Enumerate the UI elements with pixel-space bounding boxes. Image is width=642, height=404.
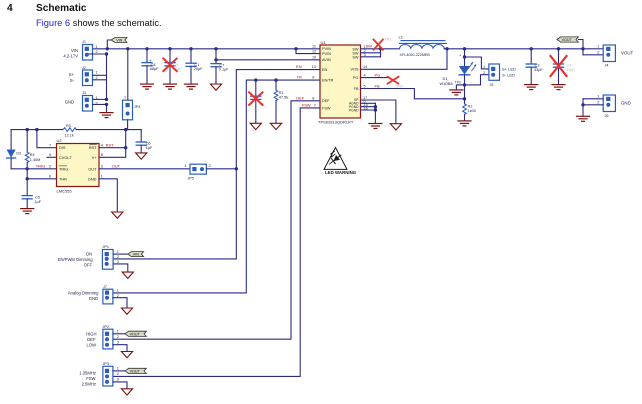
- wire JP1 pin3 to gnd: [113, 264, 128, 272]
- wire TRIG net: [11, 168, 56, 170]
- svg-text:TPS62813QDRLRT: TPS62813QDRLRT: [318, 119, 354, 124]
- wire EN/TR net (riser B): [113, 80, 320, 293]
- capacitor C7 + AVIN tap: [211, 47, 229, 83]
- svg-text:3: 3: [117, 340, 119, 344]
- svg-text:5: 5: [49, 153, 51, 157]
- svg-text:2: 2: [49, 165, 51, 169]
- svg-text:JP2: JP2: [103, 325, 110, 329]
- svg-text:LMC555: LMC555: [57, 188, 73, 193]
- svg-text:D2: D2: [16, 152, 21, 156]
- svg-text:PG: PG: [353, 76, 359, 80]
- ground (JP2, power): [121, 352, 132, 358]
- wire JP5 to EN riser: [206, 168, 236, 170]
- wire VOS sense: [361, 49, 448, 70]
- svg-text:FSW: FSW: [302, 103, 311, 108]
- net label VOUT (JP3): [125, 368, 146, 373]
- ground (R1, power): [270, 123, 281, 129]
- wire J7 pin2 to gnd: [113, 298, 127, 308]
- wire JP1 pin1 to VIN flag: [113, 253, 128, 255]
- wire R3 right to V+ node: [76, 129, 141, 131]
- node cathode/J5: [463, 83, 466, 86]
- svg-text:1: 1: [483, 65, 485, 69]
- svg-text:1: 1: [96, 70, 98, 74]
- svg-text:ON: ON: [86, 252, 92, 257]
- svg-text:U2: U2: [57, 138, 63, 143]
- svg-text:1: 1: [185, 164, 187, 168]
- svg-text:V+: V+: [92, 155, 98, 160]
- ground (C4): [552, 85, 565, 90]
- svg-text:4: 4: [364, 73, 366, 77]
- svg-text:7: 7: [49, 144, 51, 148]
- ground (C8): [141, 84, 154, 89]
- svg-text:2: 2: [597, 101, 599, 105]
- svg-text:14: 14: [363, 65, 367, 69]
- node RST/V+: [124, 146, 127, 149]
- svg-text:20µF: 20µF: [194, 67, 203, 71]
- node FB/R2: [463, 97, 466, 100]
- svg-text:2: 2: [597, 51, 599, 55]
- svg-text:1: 1: [117, 367, 119, 371]
- wire FB net: [361, 89, 465, 99]
- svg-text:13: 13: [312, 65, 316, 69]
- svg-text:DNP: DNP: [396, 84, 404, 88]
- ground (C2, power): [250, 123, 261, 129]
- wire VOUT flag stub: [578, 40, 583, 55]
- wire AGND/PGND cluster: [361, 103, 376, 123]
- svg-text:FB: FB: [375, 83, 380, 88]
- wire JP2 pin1 to VOUT flag: [113, 333, 125, 335]
- capacitor C4 DNP: [551, 47, 576, 84]
- node J6: [581, 103, 584, 106]
- svg-text:1: 1: [597, 95, 599, 99]
- svg-text:EN: EN: [296, 64, 302, 69]
- resistor R2: [463, 99, 476, 121]
- svg-text:R2: R2: [468, 104, 473, 108]
- resistor R1 47.5k: [274, 78, 288, 122]
- wire J2 pin2: [93, 79, 107, 81]
- ground (input bus): [100, 113, 113, 118]
- op-amp U2 LMC555: [57, 138, 100, 193]
- svg-text:CVOLT: CVOLT: [59, 155, 72, 160]
- wire DIS: [37, 130, 57, 148]
- svg-text:RST: RST: [106, 143, 115, 148]
- svg-text:+: +: [459, 52, 462, 57]
- net label VOUT (JP2): [125, 331, 146, 336]
- svg-text:S- LED: S- LED: [502, 72, 515, 77]
- resistor R3: [63, 124, 76, 137]
- wire JP3 pin3 to gnd: [113, 382, 127, 388]
- LED warning triangle: [324, 148, 357, 175]
- svg-text:AVIN: AVIN: [322, 58, 331, 62]
- wire PVIN pin12 drop: [296, 49, 320, 54]
- svg-text:R1: R1: [279, 91, 284, 95]
- svg-text:1.40M: 1.40M: [30, 158, 41, 162]
- svg-text:EN/PWM Dimming: EN/PWM Dimming: [58, 257, 94, 262]
- svg-text:J6: J6: [605, 114, 609, 118]
- svg-text:1: 1: [117, 250, 119, 254]
- inductor L1: [399, 35, 447, 57]
- svg-text:PG: PG: [375, 72, 381, 77]
- connector J5 S+/S- LED: [483, 64, 516, 87]
- svg-text:1: 1: [597, 45, 599, 49]
- svg-text:J5: J5: [490, 83, 494, 87]
- ground (C6, power): [136, 153, 147, 159]
- ground (C3): [525, 85, 538, 90]
- wire J2 pin1: [93, 74, 107, 76]
- jumper JP1 EN/PWM dimming: [102, 245, 119, 269]
- capacitor C2 DNP on EN/TR: [249, 78, 264, 122]
- ground (C7, power): [210, 84, 221, 90]
- wire J4 pin2: [583, 54, 603, 56]
- wire VIN label stub: [107, 40, 111, 49]
- svg-text:D1: D1: [443, 76, 449, 81]
- svg-text:1k00: 1k00: [468, 109, 476, 113]
- svg-text:R3: R3: [66, 124, 71, 128]
- wire PG stub: [361, 77, 388, 79]
- svg-text:2: 2: [117, 335, 119, 339]
- ground (AGND bars): [369, 124, 382, 129]
- svg-text:GND: GND: [88, 176, 97, 181]
- labels U1 right pin numbers: [363, 45, 368, 111]
- jumper JP5: [185, 164, 211, 180]
- node PGND joins: [374, 105, 377, 108]
- wire SP pin to power gnd: [361, 100, 396, 123]
- svg-text:J3: J3: [82, 91, 86, 95]
- svg-text:3: 3: [117, 378, 119, 382]
- svg-text:11: 11: [312, 45, 316, 49]
- svg-text:6: 6: [49, 175, 51, 179]
- svg-text:JP1: JP1: [103, 245, 110, 249]
- test point gnd stub: [456, 85, 464, 89]
- ground (J6): [577, 116, 590, 121]
- svg-text:C4: C4: [567, 64, 572, 68]
- jumper JP2 DEF: [103, 325, 119, 349]
- svg-text:9: 9: [312, 76, 314, 80]
- svg-text:GND: GND: [89, 296, 98, 301]
- svg-text:VIN: VIN: [71, 48, 78, 53]
- jumper JP4: [123, 96, 141, 120]
- node VOUT stub: [581, 47, 584, 50]
- svg-text:L1: L1: [399, 35, 404, 40]
- wire VIN rail: [93, 48, 321, 50]
- svg-text:2: 2: [209, 164, 211, 168]
- svg-text:1: 1: [124, 96, 126, 100]
- svg-text:DEF: DEF: [296, 95, 305, 100]
- LED D1: [440, 47, 477, 99]
- net label VIN (top): [111, 38, 127, 43]
- svg-text:VOS: VOS: [350, 68, 358, 72]
- svg-text:FSW: FSW: [86, 376, 95, 381]
- wire SW pins bus: [361, 49, 400, 57]
- svg-text:PVIN: PVIN: [322, 52, 331, 56]
- wire V+ to supply: [99, 130, 126, 158]
- wire 555 supply node (left segment to R3): [11, 129, 63, 131]
- wire cathode to J5 pin2: [465, 75, 489, 85]
- svg-text:SW: SW: [366, 44, 373, 49]
- resistor PG pullup DNP: [388, 77, 399, 84]
- ground (SP, power): [390, 124, 401, 130]
- node THR: [26, 177, 29, 180]
- capacitor C3: [526, 47, 543, 84]
- capacitor C5: [22, 195, 41, 208]
- svg-text:TR: TR: [297, 75, 302, 80]
- ground (U2 GND, power): [112, 212, 123, 218]
- svg-text:THR: THR: [59, 176, 67, 181]
- wire JP2 pin3 to gnd: [113, 345, 127, 351]
- node DIS tap: [35, 128, 38, 131]
- wire AVIN: [216, 59, 320, 61]
- wire JP4 drop from rail: [127, 49, 129, 100]
- node PVIN12 drop: [294, 47, 297, 50]
- svg-text:OUT: OUT: [112, 164, 121, 169]
- net label VIN (JP1): [128, 252, 144, 257]
- svg-text:FSW: FSW: [322, 106, 331, 110]
- svg-text:W1DB6: W1DB6: [440, 82, 453, 86]
- wire J3 pin1: [93, 98, 107, 100]
- svg-text:8: 8: [101, 153, 103, 157]
- svg-text:XFL4020-222MEB: XFL4020-222MEB: [400, 53, 431, 57]
- svg-text:GND: GND: [621, 100, 631, 105]
- svg-text:33µF: 33µF: [534, 68, 543, 72]
- svg-text:10: 10: [312, 56, 316, 60]
- ground (C5): [21, 209, 34, 214]
- ground (JP1, power): [122, 272, 133, 278]
- wire J1 pin2 to gnd bus: [93, 54, 107, 99]
- svg-text:0.1µF: 0.1µF: [219, 67, 229, 71]
- svg-text:VOUT: VOUT: [621, 50, 634, 55]
- svg-text:J1: J1: [82, 40, 86, 44]
- node supply/JP4: [124, 128, 127, 131]
- connector J3: [82, 91, 98, 111]
- svg-text:1: 1: [117, 289, 119, 293]
- resistor R4 1.40M: [25, 128, 40, 169]
- ground (DNP cap): [164, 84, 177, 89]
- wire DEF net (riser C): [113, 101, 320, 339]
- svg-text:TRIG: TRIG: [36, 164, 46, 169]
- stub CVOLT pin 5: [47, 156, 57, 158]
- svg-text:FB: FB: [354, 87, 359, 91]
- svg-text:PVIN: PVIN: [322, 47, 331, 51]
- svg-text:OFF: OFF: [84, 262, 93, 267]
- svg-text:2: 2: [483, 71, 485, 75]
- wire RST to supply: [99, 147, 126, 149]
- node VOS tap: [445, 47, 448, 50]
- svg-text:47.5k: 47.5k: [279, 95, 288, 99]
- node JP4 drop: [126, 47, 129, 50]
- svg-text:2: 2: [117, 255, 119, 259]
- svg-text:PGND: PGND: [349, 108, 359, 112]
- wire GND pin to ground: [99, 179, 117, 212]
- svg-text:TP3: TP3: [455, 80, 461, 84]
- wire EN net (riser A): [113, 70, 320, 259]
- node SW bus: [379, 47, 382, 50]
- ground (J7, power): [121, 308, 132, 314]
- capacitor C6: [136, 130, 153, 153]
- svg-text:7: 7: [314, 104, 316, 108]
- svg-text:J7: J7: [103, 285, 107, 289]
- svg-text:C5: C5: [35, 195, 40, 199]
- svg-text:4: 4: [101, 144, 103, 148]
- svg-text:C6: C6: [146, 142, 151, 146]
- svg-text:J2: J2: [82, 66, 86, 70]
- ground (C1): [185, 84, 198, 89]
- svg-text:1: 1: [96, 45, 98, 49]
- svg-text:3: 3: [101, 165, 103, 169]
- svg-text:JP5: JP5: [188, 176, 195, 180]
- wire anode to J5 pin1: [465, 57, 489, 69]
- svg-text:TRIG: TRIG: [59, 166, 68, 171]
- capacitor DNP (input): [163, 47, 182, 83]
- wire FSW net (riser D): [113, 108, 320, 377]
- connector J7 analog dimming: [103, 285, 119, 304]
- labels U1 left pin numbers: [312, 45, 316, 60]
- ground (R2): [458, 121, 471, 126]
- capacitor C8 68uF: [142, 47, 159, 83]
- svg-text:TP1: TP1: [385, 37, 392, 41]
- node J3 pin1: [105, 98, 108, 101]
- svg-text:2.5MHz: 2.5MHz: [82, 381, 96, 386]
- svg-text:1µF: 1µF: [146, 146, 153, 150]
- svg-text:S-: S-: [70, 78, 75, 83]
- wire J6 pins to ground: [583, 99, 603, 116]
- svg-text:1: 1: [117, 330, 119, 334]
- svg-text:GND: GND: [65, 99, 74, 104]
- wire JP4 bottom to 555 supply node: [127, 120, 129, 130]
- diode D2: [7, 130, 22, 169]
- node EN riser / 555 OUT: [235, 167, 238, 170]
- svg-text:S+: S+: [69, 72, 75, 77]
- net label VOUT (top right): [557, 37, 578, 42]
- svg-text:1.35MHz: 1.35MHz: [79, 371, 96, 376]
- svg-text:SW: SW: [352, 55, 359, 59]
- wire L1 to VOUT rail: [444, 48, 603, 50]
- svg-text:J4: J4: [605, 64, 609, 68]
- svg-text:12: 12: [312, 49, 316, 53]
- svg-text:C3: C3: [535, 64, 540, 68]
- svg-text:EN/TR: EN/TR: [322, 79, 334, 83]
- connector J1: [82, 40, 98, 60]
- svg-text:8: 8: [312, 96, 314, 100]
- svg-text:DIS: DIS: [59, 145, 66, 150]
- wire J3 pin2 + gnd stem: [93, 104, 107, 112]
- svg-text:DEF: DEF: [87, 337, 96, 342]
- svg-text:3: 3: [364, 53, 366, 57]
- jumper JP3 FSW: [103, 362, 119, 386]
- ground (JP3, power): [121, 389, 132, 395]
- connector J6 GND: [597, 95, 631, 118]
- svg-text:4.2-17V: 4.2-17V: [63, 54, 78, 59]
- wire THR net: [27, 178, 56, 180]
- connector J2: [82, 66, 98, 86]
- svg-text:HIGH: HIGH: [86, 331, 96, 336]
- connector J4 VOUT: [597, 45, 633, 68]
- svg-text:2: 2: [117, 372, 119, 376]
- svg-text:33µF: 33µF: [566, 68, 575, 72]
- svg-text:LOW: LOW: [86, 342, 96, 347]
- node J3 pin2: [105, 103, 108, 106]
- svg-text:R4: R4: [30, 153, 35, 157]
- wire TRIG-THR tie + C5 stem: [26, 169, 28, 196]
- svg-text:12.1k: 12.1k: [65, 134, 74, 138]
- svg-text:5: 5: [364, 84, 366, 88]
- svg-text:EN: EN: [322, 68, 328, 72]
- wire OUT to JP5: [99, 168, 190, 170]
- svg-text:RST: RST: [89, 145, 97, 150]
- ground (TP3): [450, 90, 463, 95]
- svg-text:OUT: OUT: [88, 166, 97, 171]
- node R4/TRIG: [26, 167, 29, 170]
- svg-text:LED WARNING: LED WARNING: [325, 170, 357, 175]
- svg-text:68µF: 68µF: [150, 67, 159, 71]
- node on rail at VIN stub: [106, 47, 109, 50]
- test point TP1 DNP: [374, 40, 383, 50]
- svg-text:1µF: 1µF: [34, 200, 41, 204]
- svg-text:S+ LED: S+ LED: [502, 66, 516, 71]
- svg-text:1: 1: [101, 175, 103, 179]
- capacitor C1: [186, 47, 203, 83]
- wire JP3 pin1 to VOUT flag: [113, 370, 125, 372]
- svg-text:JP4: JP4: [134, 105, 141, 109]
- svg-text:U1: U1: [321, 40, 327, 45]
- svg-text:DEF: DEF: [322, 99, 330, 103]
- svg-text:Analog Dimming: Analog Dimming: [68, 291, 99, 296]
- regulator U1: [318, 40, 361, 125]
- svg-text:JP3: JP3: [103, 362, 110, 366]
- svg-text:3: 3: [117, 260, 119, 264]
